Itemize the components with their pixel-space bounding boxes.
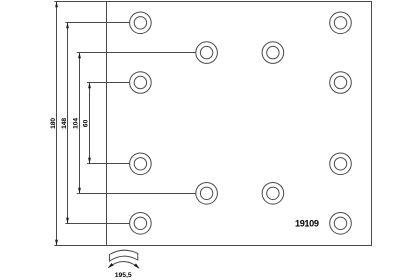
svg-text:148: 148 bbox=[61, 118, 68, 129]
svg-text:60: 60 bbox=[83, 119, 90, 127]
svg-text:195,5: 195,5 bbox=[115, 272, 132, 279]
svg-text:19109: 19109 bbox=[295, 219, 319, 229]
svg-text:180: 180 bbox=[50, 118, 57, 129]
svg-text:104: 104 bbox=[72, 118, 79, 129]
